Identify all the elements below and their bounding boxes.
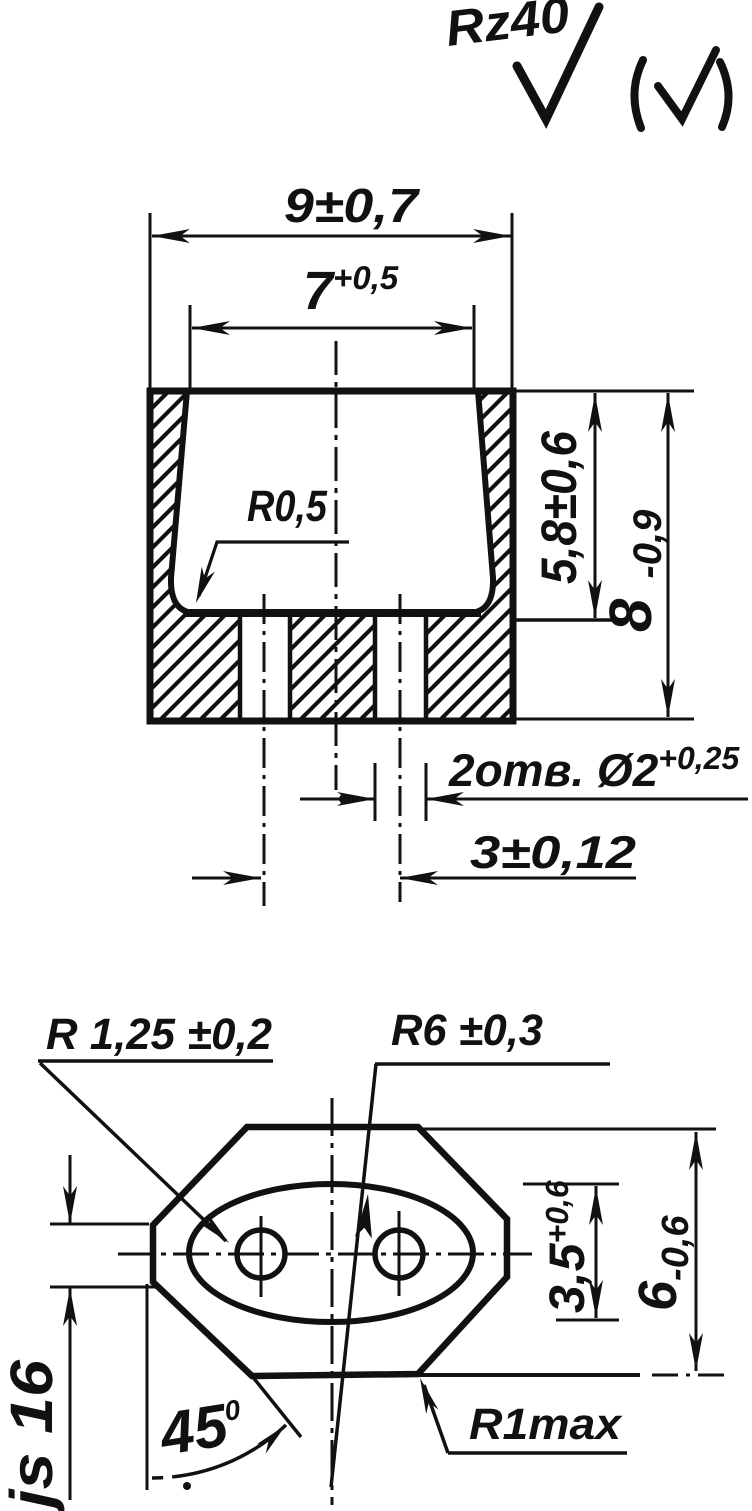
arrow R1,25 xyxy=(199,1213,229,1243)
underline R1,25 xyxy=(38,1059,273,1063)
dimension 7+0,5 line xyxy=(192,327,472,330)
svg-text:5,8±0,6: 5,8±0,6 xyxy=(531,430,587,584)
dimension 8-0,9 line xyxy=(667,393,670,717)
underline R1max xyxy=(448,1451,627,1455)
arrow 8 bottom xyxy=(661,679,675,717)
hole 2 left edge xyxy=(373,615,378,721)
arrow 5,8 bottom xyxy=(588,580,602,618)
bottom extension dash-dot right xyxy=(652,1374,728,1377)
lower-left slant edge extension xyxy=(252,1376,301,1437)
bottom view octagon outline xyxy=(153,1127,507,1376)
svg-text:R0,5: R0,5 xyxy=(247,482,327,531)
js16 dimension line lower xyxy=(69,1288,72,1500)
surface finish checkmark symbol xyxy=(517,7,599,119)
arrow 3,5 top xyxy=(589,1187,603,1225)
dimension 9±0,7 line xyxy=(152,235,511,238)
js16 extension line bottom xyxy=(50,1286,157,1289)
leader R0,5 xyxy=(199,542,349,596)
svg-text:R6 ±0,3: R6 ±0,3 xyxy=(391,1006,543,1055)
bottom view horizontal centerline xyxy=(118,1253,532,1256)
section hatching xyxy=(0,340,752,760)
arrow 7 right xyxy=(434,321,472,335)
leader R6 xyxy=(331,1064,376,1487)
main vertical centerline of section xyxy=(335,341,338,790)
octagon top edge extension right xyxy=(418,1128,716,1131)
45 degree arc xyxy=(186,1425,286,1475)
dimension 3,5 extension top xyxy=(523,1184,619,1320)
hole 2 centerline xyxy=(399,594,402,902)
hole 2 circle xyxy=(375,1230,423,1278)
js16 extension line top xyxy=(50,1155,157,1500)
bottom extension line to right xyxy=(515,718,694,721)
svg-text:3±0,12: 3±0,12 xyxy=(470,826,636,878)
top extension line to right xyxy=(513,390,694,393)
hole 2 vertical centerline xyxy=(398,1211,401,1296)
arrow 8 top xyxy=(661,394,675,432)
leader R1,25 xyxy=(40,1063,226,1241)
dimension 3±0,12 right tail xyxy=(400,877,636,880)
arrow 7 left xyxy=(192,321,230,335)
leader R1max xyxy=(424,1385,448,1453)
dimension line 2otv d2 right tail xyxy=(426,798,748,801)
arrow 9 left xyxy=(152,229,190,243)
js16 dimension line upper xyxy=(69,1155,72,1224)
dimension 5,8±0,6 line xyxy=(594,393,597,618)
dimension 9±0,7 extension lines xyxy=(150,213,512,388)
hole 1 vertical centerline xyxy=(260,1216,263,1297)
hole 1 left edge xyxy=(238,615,243,721)
dimension 7+0,5 extension lines xyxy=(190,305,474,388)
dimension line 2otv d2 left tail xyxy=(300,798,375,801)
section cavity outline xyxy=(171,391,493,613)
45 degree arc dashed end xyxy=(152,1475,186,1478)
arrow R6 xyxy=(355,1194,372,1239)
hole 1 right edge xyxy=(288,615,293,721)
svg-text:js 16: js 16 xyxy=(0,1359,65,1511)
svg-text:R 1,25 ±0,2: R 1,25 ±0,2 xyxy=(46,1010,273,1059)
arrow 3 right xyxy=(400,871,438,885)
arrow R0,5 xyxy=(196,567,215,603)
dimension 6-0,6 line xyxy=(695,1132,698,1371)
octagon bottom edge extension right xyxy=(420,1373,640,1377)
arrow 6 top xyxy=(689,1132,703,1170)
arrow 6 bottom xyxy=(689,1333,703,1371)
arrow js16 down xyxy=(63,1186,77,1224)
hole 1 circle xyxy=(237,1230,285,1278)
dimension 3±0,12 left tail xyxy=(192,877,636,880)
hole 2 right edge xyxy=(424,615,429,721)
cavity bottom thick line xyxy=(183,609,481,617)
dot on arc xyxy=(183,1482,191,1490)
arrow d2 right xyxy=(426,792,464,806)
underline R6 xyxy=(375,1062,610,1066)
bottom extension dash left xyxy=(382,1375,408,1378)
svg-text:9±0,7: 9±0,7 xyxy=(284,180,421,233)
cavity depth extension line xyxy=(516,618,622,622)
parenthesized checkmark (other surfaces) xyxy=(634,60,643,128)
hole edge extension lines xyxy=(300,763,748,821)
dimension 3,5 line xyxy=(595,1186,598,1318)
arrow js16 up xyxy=(63,1288,77,1326)
bottom view vertical centerline xyxy=(331,1098,334,1505)
arrow d2 left xyxy=(337,792,375,806)
hole 1 centerline xyxy=(263,594,266,906)
svg-text:R1max: R1max xyxy=(469,1400,623,1449)
arrow R1max xyxy=(420,1378,438,1414)
arrow 3 left xyxy=(223,871,261,885)
left edge extension downward xyxy=(146,1284,149,1490)
oval groove outline xyxy=(189,1184,473,1322)
dimension 3,5 extension bottom xyxy=(556,1319,619,1322)
arrow 3,5 bottom xyxy=(589,1280,603,1318)
section outer outline xyxy=(150,391,513,721)
arrow 45deg xyxy=(257,1425,286,1453)
arrow 9 right xyxy=(473,229,511,243)
ink blob on arrow xyxy=(339,794,349,804)
arrow 5,8 top xyxy=(588,394,602,432)
